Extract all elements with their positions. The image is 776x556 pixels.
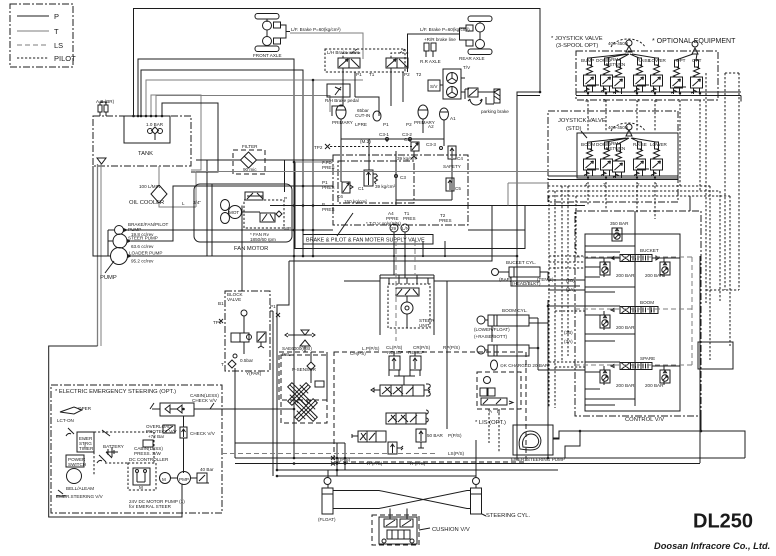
svg-text:BOOM: BOOM bbox=[581, 142, 595, 147]
electric emergency steering box bbox=[51, 385, 222, 513]
port line bbox=[548, 176, 678, 180]
steering relief small bbox=[388, 442, 403, 454]
svg-text:C6: C6 bbox=[337, 194, 343, 199]
svg-text:PILOT: PILOT bbox=[54, 54, 76, 63]
supply valve title box bbox=[303, 235, 433, 245]
svg-text:B1: B1 bbox=[218, 301, 224, 306]
svg-text:CL(P/S): CL(P/S) bbox=[386, 345, 403, 350]
svg-text:400-450N: 400-450N bbox=[608, 41, 628, 46]
aux steering valve bbox=[352, 431, 386, 442]
fan motor bbox=[194, 160, 292, 256]
rear brake line symbols bbox=[420, 37, 456, 64]
svg-text:SPARE: SPARE bbox=[640, 356, 655, 361]
joystick valve 2 (STD) bbox=[548, 111, 678, 202]
steering big enclosing boxes bbox=[331, 281, 540, 466]
svg-text:200 BAR: 200 BAR bbox=[616, 383, 635, 388]
svg-text:TIMER: TIMER bbox=[79, 446, 94, 451]
front axle bbox=[253, 14, 341, 59]
50 bar valve bbox=[416, 429, 444, 448]
svg-text:PRES: PRES bbox=[322, 185, 335, 190]
svg-text:TANK: TANK bbox=[138, 151, 153, 157]
svg-text:C1: C1 bbox=[358, 186, 364, 191]
relay block bbox=[128, 463, 156, 490]
parking brake bbox=[465, 88, 509, 114]
spare block right bbox=[698, 342, 733, 369]
main relief bbox=[610, 211, 635, 241]
svg-text:UNIT: UNIT bbox=[419, 323, 430, 328]
cross lines bbox=[333, 491, 471, 509]
svg-text:CONTROL V/V: CONTROL V/V bbox=[625, 417, 664, 423]
svg-text:63.6 cc/rev: 63.6 cc/rev bbox=[131, 244, 154, 249]
svg-text:+72 Bar: +72 Bar bbox=[148, 434, 165, 439]
svg-text:PUMP: PUMP bbox=[100, 275, 117, 281]
boom spool bbox=[600, 300, 658, 330]
svg-text:P(P/S): P(P/S) bbox=[448, 433, 462, 438]
LS dashed long lines bbox=[85, 241, 692, 454]
svg-text:* ELECTRIC EMERGENCY STEERIN: * ELECTRIC EMERGENCY STEERING (OPT.) bbox=[55, 389, 176, 395]
cabin check vv in electric box bbox=[134, 393, 295, 473]
supply valve outer solid enclosure wires bbox=[295, 162, 525, 249]
pump output lines bbox=[93, 166, 518, 257]
bucket cylinder bbox=[492, 260, 555, 286]
svg-text:CHECK V/V: CHECK V/V bbox=[190, 431, 216, 436]
svg-text:BELL/ALEAM: BELL/ALEAM bbox=[66, 486, 94, 491]
svg-text:JOYSTICK VALVE: JOYSTICK VALVE bbox=[558, 118, 606, 124]
svg-text:CH(PS): CH(PS) bbox=[350, 351, 366, 356]
port line bbox=[576, 92, 741, 102]
svg-text:L/F. Brake P=60(kg/cm²): L/F. Brake P=60(kg/cm²) bbox=[420, 27, 470, 32]
svg-text:C4: C4 bbox=[457, 156, 463, 161]
svg-text:400-450N: 400-450N bbox=[608, 125, 628, 130]
svg-text:parking brake: parking brake bbox=[481, 109, 509, 114]
tank strainer bbox=[97, 158, 106, 346]
filter (return) bbox=[196, 144, 333, 174]
svg-text:A1: A1 bbox=[450, 116, 456, 121]
svg-text:(3-SPOOL OPT): (3-SPOOL OPT) bbox=[556, 43, 598, 49]
svg-text:DC CONTROLLER: DC CONTROLLER bbox=[129, 457, 169, 462]
supply left port stubs bbox=[270, 161, 585, 207]
svg-text:C3: C3 bbox=[400, 175, 406, 180]
pump group bbox=[100, 222, 169, 281]
svg-text:T: T bbox=[221, 362, 224, 367]
svg-text:FAN MOTOR: FAN MOTOR bbox=[234, 246, 268, 252]
steering system top box lines bbox=[380, 275, 434, 335]
svg-text:29: 29 bbox=[391, 226, 397, 231]
svg-text:A2: A2 bbox=[428, 124, 434, 129]
trunk lines from tank top (nested L bends) bbox=[132, 9, 540, 459]
svg-text:LCT-ON: LCT-ON bbox=[57, 418, 74, 423]
svg-text:⊙K CHARGED 20 BAR: ⊙K CHARGED 20 BAR bbox=[500, 363, 549, 368]
svg-text:1.0 BAR: 1.0 BAR bbox=[146, 122, 164, 127]
steering relief pair bbox=[387, 350, 424, 385]
svg-text:for EMERAL STEER: for EMERAL STEER bbox=[129, 504, 172, 509]
svg-text:PMP: PMP bbox=[179, 477, 189, 482]
LIS pilot drop wires bbox=[489, 409, 499, 452]
opt joystick pivot bbox=[692, 48, 698, 54]
cyl connection lines bbox=[492, 272, 585, 370]
accumulator charged bbox=[491, 360, 549, 370]
svg-text:LS: LS bbox=[54, 41, 63, 50]
svg-text:LPRE: LPRE bbox=[355, 122, 367, 127]
left steering cluster verticals bbox=[270, 206, 492, 477]
svg-text:PRES: PRES bbox=[322, 165, 335, 170]
svg-text:RP(P/S): RP(P/S) bbox=[443, 345, 460, 350]
cushion valve bbox=[372, 509, 470, 546]
brake & pilot & fan supply valve box bbox=[295, 155, 525, 249]
svg-text:FRONT AXLE: FRONT AXLE bbox=[253, 53, 282, 58]
svg-text:M: M bbox=[139, 485, 143, 490]
bucket spool bbox=[600, 248, 670, 278]
svg-text:LOWER: LOWER bbox=[649, 58, 667, 63]
accumulators row bbox=[332, 105, 456, 139]
svg-text:LOADER PUMP: LOADER PUMP bbox=[129, 251, 162, 256]
svg-text:OPER: OPER bbox=[78, 406, 92, 411]
X joystick steering cluster bbox=[281, 355, 327, 423]
steer unit bbox=[388, 275, 435, 328]
C5 bbox=[446, 178, 454, 191]
svg-text:P2: P2 bbox=[406, 122, 412, 127]
svg-text:L/N: L/N bbox=[402, 226, 409, 231]
svg-text:Doosan Infracore Co., Ltd.: Doosan Infracore Co., Ltd. bbox=[654, 541, 770, 551]
boom cylinders bbox=[474, 308, 529, 356]
svg-text:+R/R brake line: +R/R brake line bbox=[424, 37, 456, 42]
svg-text:(+RAISE/BOTT): (+RAISE/BOTT) bbox=[474, 334, 508, 339]
svg-text:VALVE: VALVE bbox=[227, 297, 241, 302]
svg-text:P-SENSOR: P-SENSOR bbox=[292, 367, 317, 372]
L/H brake valve bbox=[325, 49, 422, 106]
line front axle to brake valve bbox=[290, 33, 363, 59]
T/V steering wheel circles bbox=[428, 65, 471, 99]
svg-text:1850/60 rpm: 1850/60 rpm bbox=[250, 237, 276, 242]
svg-text:MP: MP bbox=[284, 226, 291, 231]
svg-text:* LIS (OPT.): * LIS (OPT.) bbox=[475, 420, 506, 426]
svg-text:350 BAR: 350 BAR bbox=[610, 221, 629, 226]
svg-text:P1: P1 bbox=[356, 72, 362, 77]
svg-text:Y(PAR): Y(PAR) bbox=[246, 371, 262, 376]
svg-text:RAISE: RAISE bbox=[633, 142, 647, 147]
svg-text:P1: P1 bbox=[383, 122, 389, 127]
svg-text:PRES: PRES bbox=[439, 218, 452, 223]
emergency steering pump icon bbox=[511, 425, 565, 462]
C4 safety bbox=[448, 146, 456, 159]
svg-text:BUCKET: BUCKET bbox=[640, 248, 659, 253]
svg-text:BOOM CYL.: BOOM CYL. bbox=[502, 308, 528, 313]
svg-text:39 kg/cm²: 39 kg/cm² bbox=[397, 156, 418, 161]
top right vertical from top trunk bbox=[517, 91, 541, 460]
svg-text:FILTER: FILTER bbox=[242, 144, 258, 149]
svg-text:* JOYSTICK VALVE: * JOYSTICK VALVE bbox=[551, 36, 603, 42]
C3 node bbox=[395, 175, 398, 178]
svg-text:STEER PUMP: STEER PUMP bbox=[128, 236, 158, 241]
A.B valve above tank bbox=[96, 99, 115, 116]
svg-text:(3A): (3A) bbox=[564, 339, 573, 344]
svg-text:PRES: PRES bbox=[403, 216, 416, 221]
svg-text:R/H Brake pedal: R/H Brake pedal bbox=[325, 98, 359, 103]
svg-text:STEERING CYL.: STEERING CYL. bbox=[486, 513, 531, 519]
svg-text:P2: P2 bbox=[404, 72, 410, 77]
svg-text:39 kg/cm²: 39 kg/cm² bbox=[375, 184, 396, 189]
five+two pilot valve pairs bbox=[584, 58, 596, 92]
svg-text:M: M bbox=[162, 477, 166, 482]
svg-text:95.2 cc/rev: 95.2 cc/rev bbox=[131, 259, 154, 264]
svg-text:R.R AXLE: R.R AXLE bbox=[420, 59, 441, 64]
svg-text:T/V: T/V bbox=[463, 65, 471, 70]
svg-text:DL250: DL250 bbox=[693, 511, 753, 533]
svg-text:40 Bar: 40 Bar bbox=[200, 467, 214, 472]
svg-text:PRESS. S/W: PRESS. S/W bbox=[134, 451, 161, 456]
svg-text:200 BAR: 200 BAR bbox=[616, 273, 635, 278]
svg-text:P: P bbox=[54, 12, 59, 21]
svg-text:BRAKE & PILOT & FAN MOTER SUPP: BRAKE & PILOT & FAN MOTER SUPPLY VALVE bbox=[306, 238, 425, 244]
outer T return big path bbox=[49, 346, 182, 517]
svg-text:L.P(P/S): L.P(P/S) bbox=[362, 346, 380, 351]
internal supply lines bbox=[332, 97, 452, 278]
svg-text:MOT: MOT bbox=[229, 210, 239, 215]
battery bbox=[106, 447, 118, 457]
steering assembly outer enclosure wire bbox=[273, 206, 492, 477]
svg-text:CUT-IN: CUT-IN bbox=[355, 113, 370, 118]
svg-text:PRES: PRES bbox=[322, 207, 335, 212]
svg-text:LS(P/S): LS(P/S) bbox=[448, 451, 465, 456]
svg-text:50 BAR: 50 BAR bbox=[427, 433, 444, 438]
block valve (pilot) bbox=[213, 206, 276, 459]
svg-text:T2: T2 bbox=[416, 72, 422, 77]
C1 valve bbox=[364, 170, 373, 186]
pilot dashed drop lines from joysticks bbox=[548, 73, 739, 408]
electric internals bbox=[56, 406, 214, 509]
svg-text:L: L bbox=[182, 201, 185, 206]
svg-text:C3-1: C3-1 bbox=[379, 132, 389, 137]
breather funnel bbox=[285, 330, 315, 352]
joystick valve 1 (3-spool opt) bbox=[551, 36, 741, 103]
svg-text:BATTERY: BATTERY bbox=[103, 444, 124, 449]
DL250 label bbox=[654, 511, 770, 552]
C6 valve bbox=[342, 182, 350, 193]
svg-text:0.5bar: 0.5bar bbox=[240, 358, 253, 363]
svg-text:SAE6000(PSI): SAE6000(PSI) bbox=[282, 346, 312, 351]
LIS box bbox=[475, 372, 521, 452]
svg-text:CR(P/S): CR(P/S) bbox=[413, 345, 431, 350]
svg-text:P: P bbox=[284, 196, 287, 201]
motor + pump bbox=[160, 473, 171, 484]
amplifier spool bbox=[386, 410, 428, 424]
svg-text:200 BAR: 200 BAR bbox=[616, 325, 635, 330]
svg-text:BOOM: BOOM bbox=[640, 300, 654, 305]
svg-text:L/F. Brake P=60(kg/cm²): L/F. Brake P=60(kg/cm²) bbox=[291, 27, 341, 32]
svg-text:EMER.STEERING V/V: EMER.STEERING V/V bbox=[56, 494, 104, 499]
steering cylinders bbox=[318, 478, 531, 523]
control valve box bbox=[575, 211, 701, 423]
svg-text:(3B): (3B) bbox=[564, 330, 573, 335]
svg-text:200 BAR: 200 BAR bbox=[645, 273, 664, 278]
svg-text:150 kg/cm²: 150 kg/cm² bbox=[344, 199, 367, 204]
breather in tank bbox=[146, 122, 164, 140]
svg-text:SWITCH: SWITCH bbox=[68, 462, 86, 467]
svg-text:P1: P1 bbox=[270, 304, 276, 309]
svg-text:CHECK V/V: CHECK V/V bbox=[192, 398, 218, 403]
R/H brake pedal bbox=[325, 84, 359, 103]
rear axle bbox=[408, 16, 493, 72]
priority valve spool bbox=[371, 384, 430, 396]
svg-text:(STD): (STD) bbox=[566, 126, 582, 132]
svg-text:T1: T1 bbox=[369, 72, 375, 77]
wire P riser x313 bbox=[312, 80, 314, 256]
spare spool bbox=[600, 356, 670, 388]
svg-text:T: T bbox=[54, 27, 59, 36]
svg-text:C5: C5 bbox=[455, 186, 461, 191]
control valve internal lines bbox=[564, 234, 680, 406]
bottom connection lines bbox=[235, 440, 745, 478]
svg-text:S/V: S/V bbox=[430, 84, 438, 89]
right side long verticals bbox=[547, 196, 700, 463]
svg-text:200 BAR: 200 BAR bbox=[645, 383, 664, 388]
staircase from control valve to bottom row bbox=[553, 416, 745, 458]
gray T returns from joysticks bbox=[196, 172, 577, 206]
svg-text:(FLOAT): (FLOAT) bbox=[318, 517, 336, 522]
oil cooler bbox=[129, 166, 201, 207]
svg-text:(M.2): (M.2) bbox=[360, 139, 371, 144]
svg-text:C3-3: C3-3 bbox=[426, 142, 436, 147]
svg-text:REAR AXLE: REAR AXLE bbox=[459, 56, 485, 61]
svg-text:PRIMARY: PRIMARY bbox=[332, 120, 353, 125]
svg-text:TP2: TP2 bbox=[314, 145, 323, 150]
steering sensor dashed box bbox=[279, 346, 327, 400]
legend box bbox=[10, 4, 76, 67]
svg-text:CUSHION V/V: CUSHION V/V bbox=[432, 527, 470, 533]
tank bbox=[93, 116, 191, 166]
supply valve internals bbox=[314, 132, 463, 232]
svg-text:BUCKET CYL.: BUCKET CYL. bbox=[506, 260, 536, 265]
